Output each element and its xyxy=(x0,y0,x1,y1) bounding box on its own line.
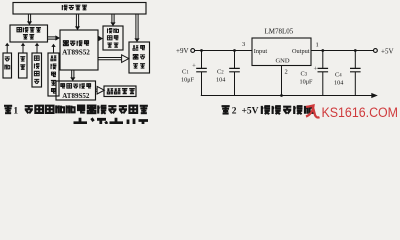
wire: main to alarm module arrow (open head) xyxy=(98,55,129,63)
node +9V input terminal xyxy=(176,47,195,55)
svg-text:1: 1 xyxy=(316,42,319,49)
wire: input rail xyxy=(195,50,252,52)
block: sensing module 检测感应模块 xyxy=(10,25,48,42)
pin 2 label xyxy=(285,69,288,76)
svg-text:10μF: 10μF xyxy=(300,78,314,85)
block: sensor 检测铁片 xyxy=(32,53,42,87)
junction dot C2/rail xyxy=(233,49,236,52)
svg-text:+: + xyxy=(192,62,196,69)
capacitor C4 104 xyxy=(334,51,361,96)
wire: power to main controller (double line arrow) xyxy=(75,14,80,30)
svg-text:+5V: +5V xyxy=(381,48,394,56)
svg-text:+: + xyxy=(313,65,317,72)
wire: sensor1 up arrow xyxy=(5,43,9,53)
wire: auxiliary to display arrow (open head) xyxy=(96,86,105,94)
block: power module 电源模块 xyxy=(13,3,146,15)
block: auxiliary controller 辅助控制器 AT89S52 xyxy=(56,81,96,100)
svg-text:AT89S52: AT89S52 xyxy=(62,92,90,100)
watermark: red logo glyph xyxy=(306,106,320,118)
wire: main to auxiliary controller arrow xyxy=(70,70,75,81)
svg-text:Input: Input xyxy=(254,48,268,55)
block: sensor 避障 xyxy=(3,53,12,78)
wire: output rail xyxy=(311,50,373,52)
capacitor C3 10uF xyxy=(300,51,329,96)
junction dot C4/rail xyxy=(354,49,357,52)
wire: GND pin to ground rail xyxy=(280,66,283,97)
svg-text:LM78L05: LM78L05 xyxy=(265,28,294,36)
svg-text:C2: C2 xyxy=(217,68,224,75)
block: sound-light alarm 声光报警模块 xyxy=(129,42,150,73)
block: main controller 主控制器 AT89S52 xyxy=(60,30,98,70)
svg-text:1: 1 xyxy=(13,106,18,116)
wire: ground rail with arrow xyxy=(201,93,378,98)
svg-text:KS1616.COM: KS1616.COM xyxy=(322,105,399,120)
svg-text:Output: Output xyxy=(292,48,310,55)
caption: 图2 +5V的电源电路 xyxy=(222,106,313,117)
svg-text:2: 2 xyxy=(285,69,288,76)
wire: sensing to main controller arrow xyxy=(48,35,61,40)
node +5V output terminal xyxy=(374,48,394,56)
svg-text:C1: C1 xyxy=(182,68,189,75)
watermark: KS1616.COM xyxy=(322,105,399,120)
block: sensor 温度传感器 xyxy=(48,53,59,96)
wire: sensor4 up arrow xyxy=(51,44,55,53)
svg-text:10μF: 10μF xyxy=(181,76,195,83)
wire: sensor3 up arrow xyxy=(35,43,39,53)
wire: power to sensing module (double line arrow) xyxy=(27,14,32,25)
regulator U1 LM78L05 xyxy=(252,28,311,66)
block: motor driver 电机驱动模块 xyxy=(103,26,123,50)
svg-text:GND: GND xyxy=(275,57,289,64)
caption: 图1 智能救援机器人的结构框图 xyxy=(4,105,148,116)
svg-text:AT89S52: AT89S52 xyxy=(62,49,90,57)
pin 3 label xyxy=(242,41,245,48)
wire: power to alarm module (double line arrow) xyxy=(134,14,139,42)
svg-text:2: 2 xyxy=(232,107,237,117)
heading (cut off): 电源电路 xyxy=(74,118,149,124)
svg-text:+9V: +9V xyxy=(176,47,189,55)
wire: power to motor driver (double line arrow) xyxy=(110,14,115,26)
block: display module 显示模块 xyxy=(104,86,136,97)
junction dot C1/rail xyxy=(200,49,203,52)
svg-text:3: 3 xyxy=(242,41,245,48)
capacitor C2 104 xyxy=(216,51,240,96)
svg-text:C4: C4 xyxy=(335,71,342,78)
svg-text:104: 104 xyxy=(216,76,225,83)
wire: main to motor driver arrow xyxy=(98,36,103,41)
block: sensor 寻线 xyxy=(19,53,28,78)
pin 1 label xyxy=(316,42,319,49)
svg-text:C3: C3 xyxy=(301,70,308,77)
junction dot C3/rail xyxy=(321,49,324,52)
svg-text:+5V: +5V xyxy=(242,107,259,117)
capacitor C1 10uF xyxy=(181,51,207,96)
svg-text:104: 104 xyxy=(334,79,343,86)
wire: sensor2 up arrow xyxy=(21,43,25,53)
